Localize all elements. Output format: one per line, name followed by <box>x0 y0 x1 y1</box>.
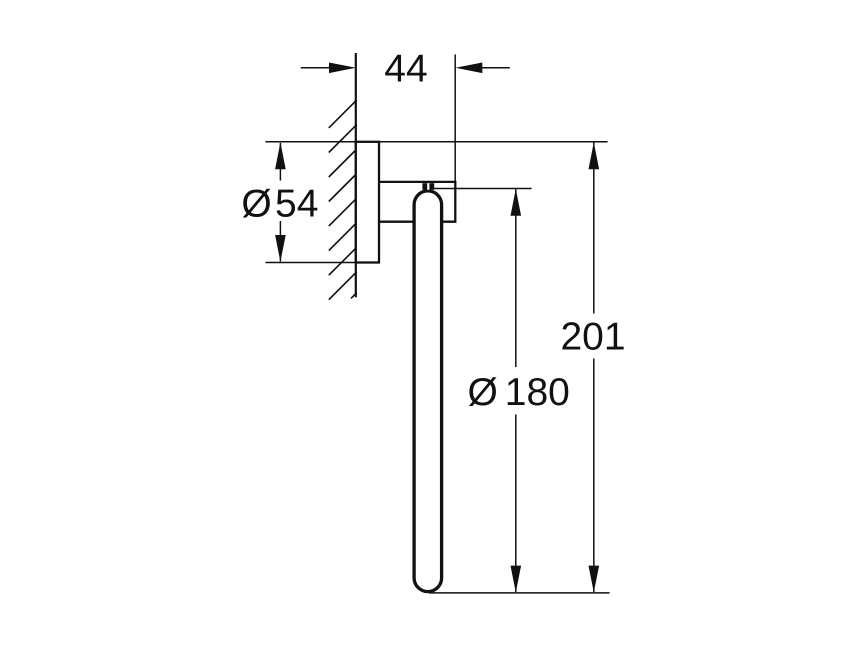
holder block <box>379 182 455 222</box>
dim diameter-180 line with arrows <box>511 189 522 593</box>
svg-text:Ø: Ø <box>468 371 498 414</box>
wall plate (rosette side view) <box>356 142 379 263</box>
dim diameter-54 line with arrows <box>275 142 286 262</box>
wire: bottom extension line <box>429 592 610 594</box>
svg-text:Ø: Ø <box>241 182 271 225</box>
svg-text:44: 44 <box>384 48 427 91</box>
ring hanger pin <box>422 183 434 190</box>
svg-text:180: 180 <box>505 371 570 414</box>
svg-text:201: 201 <box>560 316 625 359</box>
wire: diameter-180 top extension line <box>434 188 532 190</box>
ring tube (stadium outline) <box>414 191 442 592</box>
svg-text:54: 54 <box>275 182 318 225</box>
wire: 201 top extension line <box>265 141 607 143</box>
wire: 44 right extension line <box>454 54 456 181</box>
wall line <box>355 53 357 297</box>
dim 44: left arrow <box>301 63 356 74</box>
dim 201 line with arrows <box>589 142 600 592</box>
wire: diameter-54 bottom extension line <box>265 262 379 264</box>
wall hatching <box>329 100 357 300</box>
dim 44: right arrow <box>455 63 509 74</box>
